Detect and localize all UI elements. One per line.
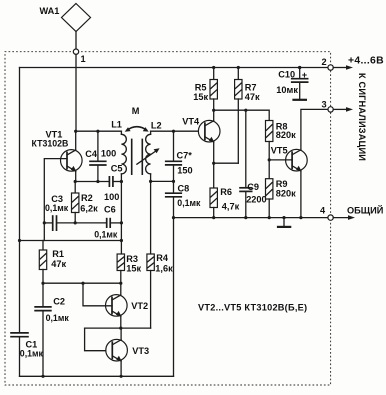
svg-text:К СИГНАЛИЗАЦИИ: К СИГНАЛИЗАЦИИ xyxy=(357,73,367,161)
svg-text:L2: L2 xyxy=(151,120,162,130)
svg-text:1: 1 xyxy=(81,54,86,64)
svg-text:R7: R7 xyxy=(245,83,257,93)
svg-text:M: M xyxy=(132,106,140,116)
capacitor C1 xyxy=(10,333,43,359)
wire emitter node line y=181.5 xyxy=(76,181,109,183)
svg-text:C10: C10 xyxy=(278,70,295,80)
transistor VT3 xyxy=(106,339,149,361)
svg-text:R3: R3 xyxy=(126,254,138,264)
inductor L2 (variable) xyxy=(137,120,162,181)
svg-text:R4: R4 xyxy=(156,253,169,263)
node dot C8 bottom on common rail xyxy=(172,216,175,219)
svg-text:C6: C6 xyxy=(104,204,116,214)
svg-text:4: 4 xyxy=(320,206,326,216)
resistor R6 xyxy=(210,163,240,217)
transistor VT5 xyxy=(271,145,307,171)
node dot R5 top xyxy=(212,66,215,69)
capacitor C5 xyxy=(104,164,123,203)
node dot C3 tap on base column xyxy=(43,221,46,224)
node dot R2 bottom xyxy=(74,221,77,224)
wire node line y=328.1 xyxy=(85,327,151,329)
resistor R5 xyxy=(193,68,217,111)
node dot C6 right xyxy=(120,221,123,224)
coupling arrow M xyxy=(125,106,149,132)
wire bottom rail xyxy=(20,375,174,377)
terminal 2 xyxy=(322,57,334,70)
arrow to signaling (3) xyxy=(333,107,353,112)
wire VT3 emitter down xyxy=(120,361,122,376)
wire VT2 emitter down xyxy=(120,316,122,328)
wire VT5 emitter down xyxy=(300,171,302,218)
node dot C9 bottom on rail xyxy=(244,216,247,219)
terminal 4 xyxy=(320,206,333,221)
wire riser bottom rail to common rail xyxy=(173,218,175,377)
node dot VT5 emitter on rail xyxy=(299,216,302,219)
wire antenna to terminal 1 xyxy=(75,32,77,50)
svg-text:820к: 820к xyxy=(276,188,296,198)
wire bias line y=240.5 xyxy=(20,240,122,242)
svg-text:0,1мк: 0,1мк xyxy=(20,349,44,359)
capacitor C2 xyxy=(34,283,69,376)
svg-text:VT5: VT5 xyxy=(271,145,288,155)
svg-text:6,2к: 6,2к xyxy=(80,203,98,213)
wire L2 bottom to C8 top xyxy=(151,180,174,182)
svg-text:R1: R1 xyxy=(52,249,64,259)
node dot VT2 base riser xyxy=(81,282,84,285)
wire column C5/C6 down to R3 xyxy=(120,182,122,255)
node dot C2 bottom on rail xyxy=(41,375,44,378)
antenna WA1 xyxy=(40,4,91,32)
node dot C4 top xyxy=(96,130,99,133)
svg-text:0,1мк: 0,1мк xyxy=(94,230,118,240)
svg-text:КТ3102В: КТ3102В xyxy=(32,139,69,149)
wire VT2 collector up xyxy=(120,283,122,295)
transistor VT4 xyxy=(182,117,220,143)
svg-text:100: 100 xyxy=(101,149,116,159)
svg-text:0,1мк: 0,1мк xyxy=(46,313,70,323)
svg-text:VT4: VT4 xyxy=(182,117,200,127)
node dot C10 top xyxy=(298,66,301,69)
terminal 3 xyxy=(322,100,334,113)
svg-text:2200: 2200 xyxy=(246,195,266,205)
svg-text:VT2...VT5 КТ3102В(Б,Е): VT2...VT5 КТ3102В(Б,Е) xyxy=(198,303,307,313)
ground symbol on common rail xyxy=(277,218,291,227)
capacitor C9 xyxy=(239,110,266,217)
node dot R5 bottom / VT4 collector xyxy=(212,109,215,112)
capacitor C6 xyxy=(94,204,121,239)
resistor R9 xyxy=(266,160,297,218)
wire left rail upper xyxy=(19,68,21,333)
resistor R1 xyxy=(39,241,66,284)
node dot R6 bottom on rail xyxy=(212,216,215,219)
svg-text:820к: 820к xyxy=(276,130,296,140)
capacitor C8 xyxy=(165,181,201,217)
node dot rail tap xyxy=(18,239,21,242)
node dot C10 on top rail xyxy=(298,66,301,69)
node dot C7/C8 junction xyxy=(172,180,175,183)
enclosure dashed border xyxy=(5,52,331,385)
svg-text:C2: C2 xyxy=(53,296,65,306)
node dot VT3 emitter on rail xyxy=(120,375,123,378)
capacitor C7 xyxy=(165,131,193,181)
node dot VT1 emitter / R2 xyxy=(74,180,77,183)
wire VT3 base jog xyxy=(85,328,113,351)
svg-text:2: 2 xyxy=(322,57,327,67)
svg-text:3: 3 xyxy=(322,100,327,110)
svg-text:WA1: WA1 xyxy=(40,6,60,16)
svg-text:0,1мк: 0,1мк xyxy=(45,203,69,213)
node dot R1/C2 xyxy=(41,282,44,285)
wire y=131 right line L2 to VT4 base xyxy=(151,130,205,132)
wire emitter node y=163.2 to R7 xyxy=(214,162,239,164)
svg-text:+: + xyxy=(302,70,307,80)
arrow +4...6V xyxy=(333,56,384,70)
node dot VT2 emitter / VT3 collector xyxy=(119,327,122,330)
node dot C9 top xyxy=(244,109,247,112)
wire node line y=283.2 xyxy=(43,282,121,284)
capacitor C4 xyxy=(85,131,116,181)
wire node line y=131 left xyxy=(76,130,122,132)
wire antenna line down to VT1 collector node xyxy=(75,54,77,131)
transformer core xyxy=(132,139,143,175)
svg-text:R6: R6 xyxy=(220,187,232,197)
inductor L1 xyxy=(111,119,126,181)
node dot bias/column xyxy=(120,239,123,242)
resistor R2 xyxy=(72,182,99,223)
wire VT4 emitter down xyxy=(213,142,215,163)
wire VT1 base left xyxy=(44,159,67,241)
wire left rail lower xyxy=(19,338,21,377)
svg-text:ОБЩИЙ: ОБЩИЙ xyxy=(347,205,383,216)
wire VT4 collector up xyxy=(213,110,215,121)
wire collector node line y=110.2 to R8 xyxy=(214,110,270,120)
transistor VT1 xyxy=(32,130,83,172)
wire VT3 collector up xyxy=(120,328,122,340)
svg-text:VT2: VT2 xyxy=(131,301,148,311)
resistor R8 xyxy=(266,121,297,160)
node dot L2 bottom xyxy=(149,180,152,183)
wire VT5 base xyxy=(269,159,292,161)
wire top +V rail xyxy=(20,67,328,69)
svg-text:47к: 47к xyxy=(51,259,66,269)
node dot antenna/L1 xyxy=(74,130,77,133)
svg-text:VT3: VT3 xyxy=(132,346,149,356)
svg-text:1,6к: 1,6к xyxy=(155,263,173,273)
wire VT1 emitter down xyxy=(75,171,77,181)
svg-text:L1: L1 xyxy=(111,119,122,129)
svg-text:15к: 15к xyxy=(126,263,141,273)
resistor R4 xyxy=(147,181,173,328)
capacitor C10 xyxy=(276,68,308,99)
wire VT5 collector to terminal 3 xyxy=(301,109,328,149)
node dot C7 top xyxy=(172,130,175,133)
svg-text:15к: 15к xyxy=(193,92,208,102)
arrow OBSHCHIY (4) xyxy=(333,205,383,220)
wire VT2 base xyxy=(83,283,112,306)
svg-text:C5: C5 xyxy=(111,164,123,174)
node dot L1 bottom / C5 xyxy=(120,180,123,183)
ground bar C10 xyxy=(292,99,307,101)
node dot R3 bottom / VT2 collector xyxy=(119,282,122,285)
svg-text:150: 150 xyxy=(177,166,192,176)
node dot C4 bottom xyxy=(96,180,99,183)
terminal 1 xyxy=(73,49,85,64)
svg-text:10мк: 10мк xyxy=(276,85,298,95)
capacitor C3 xyxy=(44,194,106,231)
svg-text:C8: C8 xyxy=(178,183,190,193)
svg-text:C7*: C7* xyxy=(177,150,193,160)
svg-text:C9: C9 xyxy=(247,182,259,192)
node dot ground on rail xyxy=(282,216,285,219)
svg-text:47к: 47к xyxy=(245,92,260,102)
svg-text:+4...6В: +4...6В xyxy=(348,56,384,67)
svg-text:R2: R2 xyxy=(81,193,93,203)
resistor R3 xyxy=(117,254,141,283)
node dot VT4 emitter xyxy=(212,162,215,165)
transistor VT2 xyxy=(106,295,149,317)
node dot R9 bottom on rail xyxy=(268,216,271,219)
node dot R8/R9/VT5 base xyxy=(268,158,271,161)
svg-text:0,1мк: 0,1мк xyxy=(177,198,201,208)
svg-text:C4: C4 xyxy=(85,149,98,159)
wire common rail xyxy=(174,217,329,219)
resistor R7 xyxy=(235,68,260,164)
svg-text:4,7к: 4,7к xyxy=(222,202,240,212)
wire VT1 collector vertical xyxy=(75,131,77,150)
node dot R7 top xyxy=(237,66,240,69)
svg-text:100: 100 xyxy=(104,192,119,202)
